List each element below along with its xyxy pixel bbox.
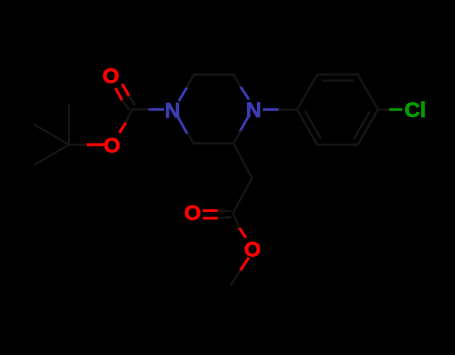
bond N4-C(ipso, chlorophenyl): carbon half <box>279 108 297 110</box>
svg-text:N: N <box>246 98 262 122</box>
double bond C1=O (Boc carbonyl): oxygen halves (red, two parallel lines) <box>115 84 129 101</box>
double bond C1=O (Boc carbonyl): carbon halves <box>123 96 135 109</box>
svg-text:O: O <box>103 64 120 88</box>
benzene ring inner double-bond lines (carbon) <box>306 81 370 139</box>
piperazine ring bond N1-C2(top-left): nitrogen half (blue) <box>179 87 188 101</box>
piperazine ring bond N4-C5(bottom-right): carbon half <box>233 132 240 144</box>
bond C(para)-Cl: carbon half <box>378 108 389 110</box>
bond O(ester)-CH3: oxygen half (red) <box>240 258 249 272</box>
bond C(para)-Cl: chlorine half (green) <box>389 108 402 111</box>
piperazine ring bond C2-C3 (top edge, carbon) <box>194 73 234 75</box>
bond O(ester)-CH3: carbon half <box>231 271 240 285</box>
piperazine ring bond C3-N4(top-right): carbon half <box>233 75 240 87</box>
svg-text:O: O <box>244 238 261 262</box>
piperazine ring bond C6-N1(bottom-left): carbon half <box>187 132 194 144</box>
piperazine ring bond N1-C2(top-left): carbon half <box>187 75 193 87</box>
svg-text:O: O <box>104 134 121 158</box>
double bond C7=O (ester carbonyl): carbon halves <box>218 211 230 219</box>
bond O(ester,Boc)-C(tBu): oxygen half (red) <box>87 143 105 146</box>
tert-butyl group C(CH3)3 (carbon-carbon bonds, near-black) <box>34 105 69 165</box>
bond CH2-C7 (ester carbonyl carbon, carbon) <box>233 178 252 213</box>
bond C1-N1(piperazine): carbon half <box>132 108 148 110</box>
bond C1-O(ester,Boc): carbon half <box>126 109 132 122</box>
bond C1-O(ester,Boc): oxygen half (red) <box>119 122 126 133</box>
piperazine ring bond C6-N1(bottom-left): nitrogen half (blue) <box>177 115 187 134</box>
bond C5-CH2 (side chain, carbon) <box>233 143 252 178</box>
svg-text:N: N <box>165 98 181 122</box>
piperazine ring bond C3-N4(top-right): nitrogen half (blue) <box>241 87 249 100</box>
bond C7-O(ester): carbon half <box>233 213 239 228</box>
bond C7-O(ester): oxygen half (red) <box>239 228 246 238</box>
bond N4-C(ipso, chlorophenyl): nitrogen half (blue) <box>263 108 279 111</box>
double bond C7=O (ester carbonyl): oxygen halves (red, two parallel lines) <box>203 211 219 219</box>
benzene ring (4-chlorophenyl, carbon hexagon) <box>297 75 378 145</box>
svg-text:Cl: Cl <box>405 98 427 122</box>
bond O(ester,Boc)-C(tBu): carbon half <box>69 144 87 146</box>
svg-text:O: O <box>184 201 201 225</box>
bond C1-N1(piperazine): nitrogen half (blue) <box>148 108 164 111</box>
piperazine ring bond N4-C5(bottom-right): nitrogen half (blue) <box>240 115 249 132</box>
piperazine ring bond C5-C6 (bottom edge, carbon) <box>194 142 234 144</box>
